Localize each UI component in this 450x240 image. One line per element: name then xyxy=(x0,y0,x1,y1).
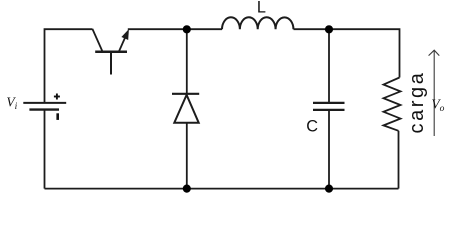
capacitor C1 branch wire lower xyxy=(328,110,330,189)
capacitor C1 branch wire upper xyxy=(328,29,330,103)
node dot top-right (capacitor node) xyxy=(325,25,333,33)
battery plus sign xyxy=(54,94,60,100)
svg-text:Vi: Vi xyxy=(6,95,17,113)
wire from emitter to inductor (through diode node) xyxy=(128,28,222,30)
svg-text:carga: carga xyxy=(406,70,428,133)
diode D1 branch wire lower xyxy=(186,123,188,189)
transistor Q1 base lead xyxy=(110,53,112,75)
arrow Vo (output voltage) xyxy=(429,50,440,136)
node dot bottom-left xyxy=(183,185,191,193)
diode D1 triangle xyxy=(174,95,198,123)
wire from inductor to top-right corner (through capacitor node) xyxy=(294,29,400,77)
svg-text:C: C xyxy=(306,118,318,136)
battery Vi bottom plate (negative, short thick) xyxy=(29,108,59,110)
diode D1 cathode bar xyxy=(172,93,199,95)
transistor Q1 base bar xyxy=(95,51,127,54)
wire from resistor bottom to bottom-right corner xyxy=(398,131,400,189)
capacitor C1 bottom plate xyxy=(313,109,345,111)
diode D1 branch wire upper xyxy=(186,29,188,94)
node dot top-left (diode node) xyxy=(183,25,191,33)
svg-text:L: L xyxy=(257,0,266,17)
battery Vi top plate (positive, long) xyxy=(23,102,66,104)
wire top-left from battery corner to transistor collector xyxy=(45,29,93,102)
wire battery negative to bottom rail xyxy=(44,109,46,188)
resistor R1 (load) zigzag xyxy=(384,78,401,131)
inductor L1 coils xyxy=(222,17,293,29)
transistor Q1 collector lead xyxy=(92,29,102,51)
wire bottom rail xyxy=(45,188,399,190)
node dot bottom-right xyxy=(325,185,333,193)
transistor Q1 emitter lead xyxy=(119,36,126,51)
svg-text:Vo: Vo xyxy=(431,96,444,114)
capacitor C1 top plate xyxy=(313,102,345,104)
transistor Q1 emitter arrowhead xyxy=(121,29,128,40)
battery minus tick xyxy=(56,113,59,120)
